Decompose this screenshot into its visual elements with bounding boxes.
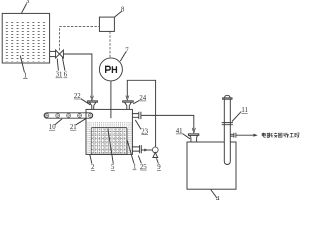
label 1 underline bbox=[23, 78, 28, 80]
char 电 bbox=[262, 133, 266, 138]
wire pump to funnel 24 bbox=[127, 80, 155, 147]
controller box 8 bbox=[99, 17, 114, 31]
label 2 leader bbox=[90, 155, 92, 164]
label 4 bbox=[216, 196, 220, 203]
recovery arrow head bbox=[253, 134, 257, 137]
char 段 bbox=[295, 133, 300, 138]
label 11 leader bbox=[232, 112, 241, 122]
label 2 underline bbox=[91, 169, 95, 171]
valve V31/6 bbox=[56, 50, 64, 58]
outlet pipe to recovery bbox=[230, 133, 236, 138]
label 25 bbox=[140, 164, 147, 171]
tank T1 body bbox=[2, 13, 49, 63]
wire 23 to funnel 41 bbox=[141, 115, 194, 130]
label 8 bbox=[121, 6, 125, 13]
wire valve to funnel 22 bbox=[63, 54, 92, 98]
arrow into funnel 41 bbox=[192, 128, 195, 133]
label 25 underline bbox=[140, 169, 147, 171]
label 5 underline bbox=[111, 169, 115, 171]
label 23 bbox=[141, 128, 148, 135]
label 1 bbox=[24, 72, 27, 79]
label 10 bbox=[49, 124, 56, 131]
conveyor 10 belt bbox=[44, 113, 93, 118]
label 11 bbox=[241, 107, 248, 114]
label 1 leader bbox=[20, 56, 24, 73]
svg-text:4: 4 bbox=[216, 196, 220, 200]
label 41 bbox=[176, 128, 183, 135]
label 9 underline bbox=[157, 169, 161, 171]
label 21 underline bbox=[70, 129, 76, 131]
PH text bbox=[106, 66, 117, 73]
pump 9 base bbox=[153, 153, 158, 158]
arrow into funnel 24 bbox=[126, 96, 129, 101]
label 5 bbox=[111, 164, 115, 171]
char 液 bbox=[272, 133, 277, 138]
label 10 underline bbox=[49, 129, 55, 131]
wire 25 to pump bbox=[142, 149, 153, 151]
label 1b bbox=[133, 164, 136, 171]
label 21 bbox=[70, 124, 77, 131]
tube 11 mid flange bbox=[222, 123, 233, 125]
reactor liquid dots bbox=[87, 122, 132, 154]
char 回 bbox=[278, 133, 282, 137]
pump 9 bbox=[152, 147, 158, 153]
label 7 bbox=[125, 47, 129, 54]
label 5 leader bbox=[108, 129, 114, 164]
label 22 underline bbox=[74, 98, 81, 100]
svg-text:8: 8 bbox=[121, 6, 125, 13]
label 6 leader bbox=[62, 57, 65, 70]
label 25 leader bbox=[138, 156, 141, 164]
text 电解液回收工段 bbox=[262, 133, 299, 138]
conveyor rollers bbox=[45, 113, 92, 117]
PH meter 7 bbox=[99, 58, 122, 81]
label 4 leader bbox=[211, 190, 217, 198]
label 24 bbox=[139, 95, 146, 102]
tube 11 top dome bbox=[225, 95, 230, 98]
outlet pipe 23 bbox=[132, 112, 141, 119]
arrow into pump bbox=[144, 149, 148, 152]
label 31 underline bbox=[56, 77, 63, 79]
PH probe line bbox=[110, 81, 112, 118]
funnel 22 bbox=[88, 101, 98, 110]
funnel 41 bbox=[188, 134, 198, 142]
label 6 underline bbox=[63, 77, 67, 79]
label 3 leader bbox=[22, 3, 27, 13]
electrolysis tank 4 bbox=[187, 142, 236, 189]
label 41 leader bbox=[183, 134, 190, 139]
label 21 leader bbox=[76, 118, 86, 125]
tube 11 top flange bbox=[223, 98, 232, 99]
svg-text:7: 7 bbox=[125, 47, 129, 54]
dashed wire valve to controller bbox=[60, 27, 100, 51]
char 收 bbox=[284, 133, 289, 138]
tube 11 bbox=[224, 99, 230, 165]
label 2 bbox=[91, 164, 95, 171]
reactor tank body bbox=[86, 109, 132, 154]
label 22 leader bbox=[81, 99, 91, 105]
arrow into funnel 22 bbox=[90, 96, 93, 101]
label 11 underline bbox=[242, 112, 248, 114]
outlet pipe 25 bbox=[132, 145, 141, 153]
label 7 leader bbox=[120, 52, 126, 62]
label 23 underline bbox=[141, 134, 148, 136]
funnel 24 bbox=[123, 101, 134, 110]
label 1b underline bbox=[133, 169, 137, 171]
label 41 underline bbox=[176, 133, 183, 135]
label 22 bbox=[74, 93, 81, 100]
label 9 leader bbox=[157, 158, 159, 163]
label 24 leader bbox=[133, 100, 139, 103]
tank T1 liquid fill bbox=[4, 21, 48, 62]
char 解 bbox=[267, 133, 271, 138]
wire to recovery arrow bbox=[236, 134, 254, 136]
svg-text:3: 3 bbox=[26, 0, 30, 5]
dashed wire controller to PH meter bbox=[109, 31, 111, 57]
char 工 bbox=[290, 133, 294, 137]
label 10 leader bbox=[55, 119, 62, 125]
label 6 bbox=[64, 72, 68, 79]
label 23 leader bbox=[135, 120, 141, 129]
label 31 leader bbox=[57, 59, 58, 71]
label 8 leader bbox=[115, 11, 122, 17]
packing mesh 5 bbox=[91, 127, 127, 154]
label 24 underline bbox=[140, 100, 147, 102]
pipe from T1 to valve bbox=[50, 50, 56, 52]
label 9 bbox=[157, 164, 161, 171]
label 31 bbox=[56, 72, 63, 79]
label 1b leader bbox=[127, 140, 134, 163]
